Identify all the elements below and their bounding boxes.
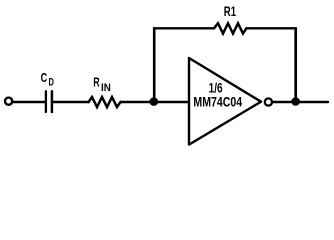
node input junction: [150, 97, 159, 106]
node output junction: [291, 97, 300, 106]
svg-text:D: D: [49, 76, 55, 88]
svg-text:1/6: 1/6: [209, 80, 223, 95]
svg-text:MM74C04: MM74C04: [193, 94, 242, 109]
wire capacitor to RIN: [53, 101, 89, 103]
wire feedback right vertical: [294, 28, 297, 102]
label CD: [41, 71, 55, 89]
svg-text:R: R: [93, 75, 99, 89]
input terminal: [5, 98, 12, 105]
op-amp U1 inverter triangle: [189, 58, 261, 145]
svg-text:R1: R1: [224, 4, 237, 19]
wire input to capacitor: [13, 101, 45, 103]
label RIN: [93, 75, 111, 93]
resistor R1: [214, 23, 246, 33]
inverter output bubble: [265, 98, 272, 105]
wire feedback top left: [154, 27, 214, 29]
svg-text:C: C: [41, 71, 48, 85]
capacitor CD: [46, 91, 52, 112]
svg-text:IN: IN: [101, 82, 111, 94]
wire output: [273, 101, 328, 103]
resistor RIN: [89, 97, 121, 107]
wire feedback top right: [246, 27, 295, 29]
wire feedback left vertical: [153, 28, 156, 102]
wire RIN to inverter input: [121, 101, 189, 103]
